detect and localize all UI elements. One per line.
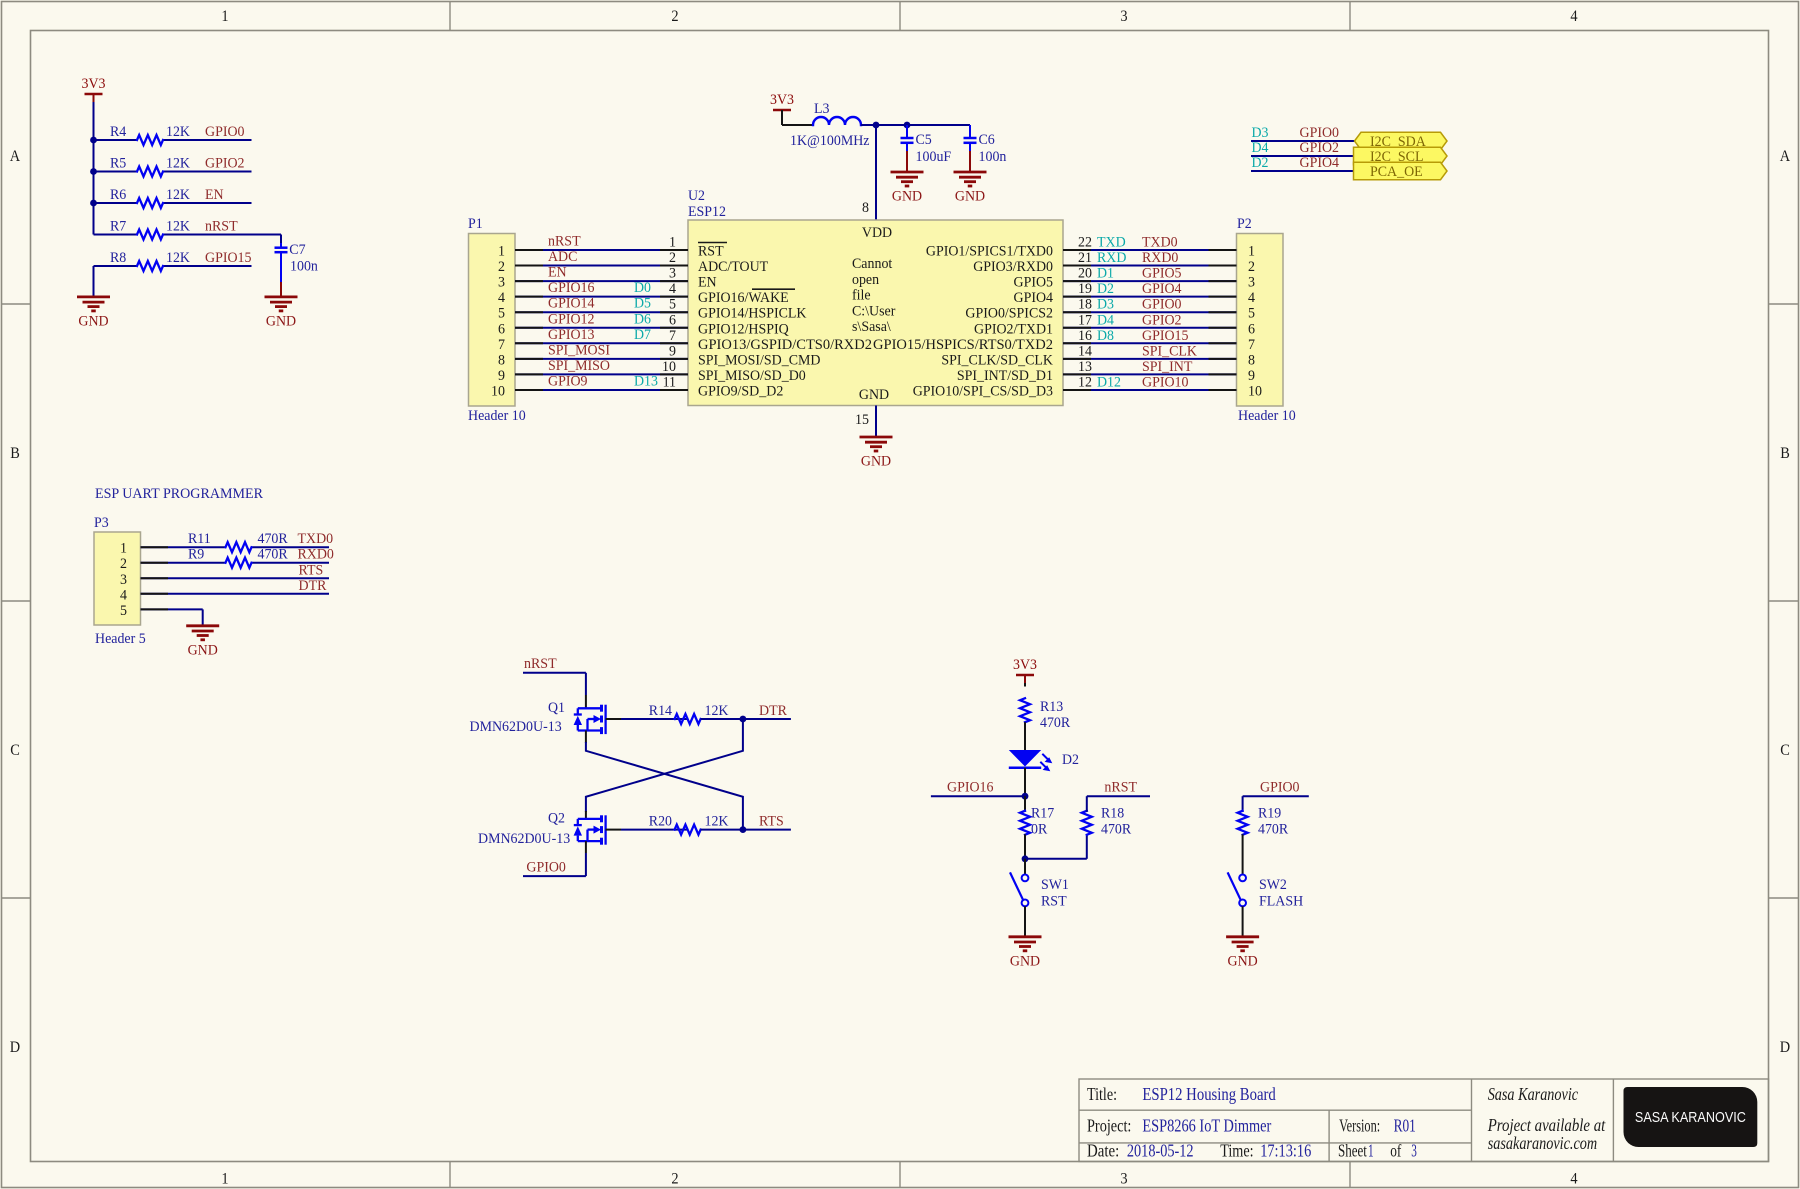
svg-text:nRST: nRST [548,234,581,250]
resistor R8 [110,250,190,271]
svg-text:SPI_INT: SPI_INT [1142,359,1192,375]
wire R14 to DTR [701,718,791,720]
svg-text:GPIO12/HSPIQ: GPIO12/HSPIQ [698,321,789,337]
svg-text:5: 5 [1248,306,1255,322]
svg-text:470R: 470R [258,531,288,547]
svg-text:GPIO5: GPIO5 [1014,275,1054,291]
svg-text:D13: D13 [634,373,658,389]
capacitor C5 [901,125,952,165]
svg-text:2: 2 [498,259,505,275]
svg-text:nRST: nRST [205,219,238,235]
wire P1 pin 2 to U2 [515,265,688,267]
svg-text:5: 5 [498,306,505,322]
svg-text:4: 4 [669,281,676,297]
svg-text:5: 5 [120,603,127,619]
ground (C5) [891,172,924,205]
wire Q2 source to GPIO0 [585,841,587,853]
svg-text:13: 13 [1078,359,1092,375]
svg-text:12K: 12K [166,187,190,203]
wire GPIO0 row [94,139,138,141]
svg-text:SPI_MOSI: SPI_MOSI [548,342,610,358]
svg-text:1: 1 [498,244,505,260]
wire GPIO2 to port I2C_SCL [1251,155,1355,157]
svg-text:16: 16 [1078,328,1092,344]
resistor R4 [110,124,190,145]
wire nRST to Q1 drain [523,672,586,674]
svg-text:3: 3 [1120,1171,1127,1188]
wire C5 to ground [906,151,908,172]
svg-text:R9: R9 [188,547,204,563]
svg-text:2: 2 [669,250,676,266]
ground (C6) [954,172,987,205]
svg-text:470R: 470R [1040,715,1070,731]
svg-text:R19: R19 [1258,806,1281,822]
svg-text:ESP UART PROGRAMMER: ESP UART PROGRAMMER [95,486,263,502]
wire R20 to RTS [701,829,791,831]
wire U2 GND pin 15 [875,406,877,438]
wire U2 to P2 pin 4 [1063,296,1237,298]
svg-text:VDD: VDD [862,225,892,241]
svg-text:GPIO0: GPIO0 [1142,297,1182,313]
title block Project row [1087,1116,1416,1136]
op-amp U2 ESP12 body [688,188,1063,406]
resistor R11 [188,531,288,552]
svg-text:SW1: SW1 [1041,877,1069,893]
wire Q2 gate to R20 [606,829,621,831]
svg-text:D6: D6 [634,311,651,327]
svg-text:GPIO4: GPIO4 [1300,155,1340,171]
title block author cell [1487,1084,1606,1153]
svg-text:Sheet: Sheet [1338,1141,1367,1161]
svg-text:D1: D1 [1097,266,1114,282]
svg-text:12K: 12K [705,814,729,830]
svg-text:GPIO1/SPICS1/TXD0: GPIO1/SPICS1/TXD0 [926,244,1053,260]
svg-text:GND: GND [188,642,218,658]
svg-text:C6: C6 [979,132,996,148]
svg-text:SPI_MISO: SPI_MISO [548,358,610,374]
wire R8 to ground [93,266,95,297]
svg-text:R13: R13 [1040,699,1063,715]
svg-text:B: B [10,445,20,462]
svg-text:SASA KARANOVIC: SASA KARANOVIC [1635,1110,1746,1126]
wire P3 pin 1 row TXD0 [141,546,226,548]
svg-text:C: C [1780,742,1790,759]
svg-text:D8: D8 [1097,328,1114,344]
svg-text:470R: 470R [258,547,288,563]
svg-text:PCA_OE: PCA_OE [1370,164,1423,180]
switch SW1 [1010,872,1069,909]
junction SW1 node [1022,855,1029,862]
svg-text:2: 2 [671,1171,678,1188]
resistor R7 [110,219,190,240]
svg-text:D4: D4 [1252,140,1269,156]
logo SASA KARANOVIC badge [1624,1087,1758,1147]
svg-text:4: 4 [1570,1171,1577,1188]
svg-text:12K: 12K [705,703,729,719]
svg-text:U2: U2 [688,188,705,204]
svg-text:GPIO4: GPIO4 [1142,281,1182,297]
wire GPIO0 to R19 [1243,795,1309,797]
junction VDD node [873,122,880,129]
junction [90,200,97,207]
svg-text:D5: D5 [634,296,651,312]
inductor L3 [790,101,870,149]
svg-text:EN: EN [548,265,567,281]
svg-text:nRST: nRST [1104,780,1137,796]
svg-text:GPIO0/SPICS2: GPIO0/SPICS2 [965,306,1053,322]
ground (SW1) [1009,937,1042,970]
broken image text inside U2 [852,256,895,335]
svg-text:R6: R6 [110,187,127,203]
svg-text:ESP12 Housing Board: ESP12 Housing Board [1142,1084,1275,1104]
svg-text:1: 1 [221,8,228,25]
wire U2 to P2 pin 2 [1063,265,1237,267]
svg-text:0R: 0R [1031,822,1047,838]
wire U2 to P2 pin 10 [1063,389,1237,391]
svg-text:GPIO0: GPIO0 [526,860,566,876]
wire P1 pin 3 to U2 [515,280,688,282]
svg-text:GPIO0: GPIO0 [1300,125,1340,141]
wire 3V3 to L3 [781,110,783,125]
svg-text:9: 9 [498,368,505,384]
svg-text:D0: D0 [634,280,651,296]
svg-text:3: 3 [1120,8,1127,25]
ground (SW2) [1226,937,1259,970]
ground (P3) [186,626,219,659]
svg-text:2018-05-12: 2018-05-12 [1127,1141,1194,1161]
resistor R9 [188,547,288,568]
wire P3 pin 2 row RXD0 [141,562,226,564]
ground (U2) [860,437,893,470]
wire P3 pin 5 to ground [141,608,203,610]
wire SW1 top [1024,859,1026,875]
wire VDD down to pin 8 [875,125,877,220]
svg-text:GPIO4: GPIO4 [1014,290,1054,306]
svg-text:10: 10 [1248,383,1262,399]
svg-text:DTR: DTR [759,703,787,719]
junction RTS [740,826,747,833]
svg-text:EN: EN [205,187,224,203]
svg-text:15: 15 [855,412,869,428]
svg-text:2: 2 [1248,259,1255,275]
wire nRST to C7 [252,234,282,236]
wire U2 to P2 pin 9 [1063,373,1237,375]
svg-text:5: 5 [669,297,676,313]
svg-text:GND: GND [78,313,108,329]
svg-text:GPIO9: GPIO9 [548,373,588,389]
junction [90,137,97,144]
svg-text:GND: GND [892,189,922,205]
svg-text:GPIO2: GPIO2 [1300,140,1340,156]
svg-text:21: 21 [1078,250,1092,266]
wire P1 pin 8 to U2 [515,358,688,360]
svg-text:s\Sasa\: s\Sasa\ [852,319,892,335]
header P1 body [468,216,526,424]
svg-text:GPIO14/HSPICLK: GPIO14/HSPICLK [698,306,807,322]
svg-text:GPIO12: GPIO12 [548,311,595,327]
svg-text:6: 6 [498,321,505,337]
power port 3V3 (VDD filter) [770,92,794,118]
resistor R20 [649,814,729,835]
svg-text:TXD0: TXD0 [298,531,334,547]
svg-text:6: 6 [669,312,676,328]
power port 3V3 (LED) [1013,657,1037,683]
svg-text:GPIO15: GPIO15 [205,250,252,266]
header P2 body [1237,216,1296,424]
svg-text:D3: D3 [1097,297,1114,313]
svg-text:open: open [852,272,880,288]
port I2C_SCL [1354,147,1448,165]
wire nRST to R18 [1086,796,1088,812]
resistor R13 [1020,698,1070,731]
svg-text:R7: R7 [110,219,127,235]
svg-text:3: 3 [498,275,505,291]
svg-text:Sasa Karanovic: Sasa Karanovic [1488,1084,1578,1104]
svg-text:C:\User: C:\User [852,303,895,319]
wire L3 to VDD node [861,124,970,126]
svg-text:7: 7 [1248,337,1255,353]
wire U2 to P2 pin 7 [1063,342,1237,344]
svg-text:100n: 100n [290,259,318,275]
wire C7 to ground [280,282,282,297]
wire P1 pin 7 to U2 [515,342,688,344]
svg-text:DTR: DTR [299,578,327,594]
svg-text:GPIO15/HSPICS/RTS0/TXD2: GPIO15/HSPICS/RTS0/TXD2 [873,337,1053,353]
svg-text:3V3: 3V3 [82,76,106,92]
svg-text:Version:: Version: [1339,1116,1380,1136]
svg-text:10: 10 [662,359,676,375]
wire U2 to P2 pin 8 [1063,358,1237,360]
resistor R14 [649,703,729,724]
svg-text:18: 18 [1078,297,1092,313]
svg-text:Q1: Q1 [548,700,565,716]
svg-text:EN: EN [698,275,717,291]
wire P1 pin 10 to U2 [515,389,688,391]
svg-text:100n: 100n [979,149,1007,165]
svg-text:3: 3 [1248,275,1255,291]
svg-text:RST: RST [1041,893,1067,909]
svg-text:4: 4 [1570,8,1577,25]
svg-text:GPIO15: GPIO15 [1142,328,1189,344]
capacitor C7 [275,242,319,282]
svg-text:GPIO9/SD_D2: GPIO9/SD_D2 [698,383,783,399]
wire P1 pin 5 to U2 [515,311,688,313]
svg-text:A: A [1780,148,1791,165]
svg-text:GND: GND [861,454,891,470]
svg-text:ESP12: ESP12 [688,204,726,220]
svg-text:GND: GND [859,387,889,403]
svg-text:10: 10 [491,383,505,399]
resistor R6 [110,187,190,208]
svg-text:2: 2 [671,8,678,25]
svg-text:TXD: TXD [1097,235,1126,251]
svg-text:P3: P3 [94,515,109,531]
wire SW2 to ground [1242,906,1244,937]
svg-text:12K: 12K [166,124,190,140]
wire Q1 gate to R14 [606,718,621,720]
svg-text:GPIO16: GPIO16 [548,280,595,296]
svg-text:1: 1 [1368,1141,1374,1161]
transistor Q1 [470,700,606,735]
svg-text:12K: 12K [166,250,190,266]
wire GPIO15 row [94,265,138,267]
wire C6 to ground [969,151,971,172]
svg-text:P2: P2 [1237,216,1252,232]
header P3 body [94,515,146,647]
wire P1 pin 9 to U2 [515,373,688,375]
wire P1 pin 4 to U2 [515,296,688,298]
svg-text:ESP8266 IoT Dimmer: ESP8266 IoT Dimmer [1142,1116,1271,1136]
svg-text:GPIO16: GPIO16 [947,780,994,796]
wire DTR cross-couple to Q2 drain [586,719,743,811]
svg-text:D2: D2 [1097,281,1114,297]
svg-text:20: 20 [1078,266,1092,282]
svg-text:1K@100MHz: 1K@100MHz [790,133,870,149]
svg-text:C5: C5 [916,132,932,148]
port I2C_SDA [1355,132,1448,150]
svg-text:GND: GND [1228,953,1258,969]
wire 3V3 to R13 [1024,683,1026,687]
svg-text:14: 14 [1078,343,1092,359]
title block frame [1079,1079,1769,1162]
svg-text:GPIO5: GPIO5 [1142,266,1182,282]
wire P3 pin 4 row DTR [141,593,330,595]
svg-text:R14: R14 [649,703,673,719]
wire GPIO0 to port I2C_SDA [1251,140,1355,142]
resistor R5 [110,156,190,177]
resistor R19 [1238,806,1289,838]
wire R19 to SW2 [1242,834,1244,874]
svg-text:GPIO2: GPIO2 [205,156,245,172]
svg-text:1: 1 [1248,244,1255,260]
svg-text:Cannot: Cannot [852,256,893,272]
svg-text:D: D [10,1039,20,1056]
svg-text:R18: R18 [1101,806,1124,822]
power port 3V3 (resistor bank) [82,76,106,102]
svg-text:19: 19 [1078,281,1092,297]
svg-text:3V3: 3V3 [1013,657,1037,673]
LED D2 [1009,750,1079,771]
svg-text:1: 1 [669,235,676,251]
svg-text:D7: D7 [634,327,651,343]
svg-text:TXD0: TXD0 [1142,235,1178,251]
svg-text:6: 6 [1248,321,1255,337]
svg-text:R17: R17 [1031,806,1055,822]
svg-text:D2: D2 [1252,155,1269,171]
port PCA_OE [1354,162,1448,180]
wire U2 to P2 pin 5 [1063,311,1237,313]
svg-text:RXD0: RXD0 [1142,250,1178,266]
resistor R18 [1082,806,1131,838]
svg-text:sasakaranovic.com: sasakaranovic.com [1488,1133,1598,1153]
svg-text:RTS: RTS [299,562,324,578]
svg-text:9: 9 [669,343,676,359]
svg-text:Project:: Project: [1087,1116,1131,1136]
svg-text:DMN62D0U-13: DMN62D0U-13 [478,831,570,847]
wire EN row [94,202,138,204]
wire GPIO4 to port PCA_OE [1251,170,1355,172]
ground (resistor bank) [77,297,110,330]
wire P1 pin 6 to U2 [515,327,688,329]
switch SW2 [1228,872,1304,909]
svg-text:Header 10: Header 10 [1238,408,1296,424]
svg-text:R4: R4 [110,124,127,140]
svg-text:SPI_MOSI/SD_CMD: SPI_MOSI/SD_CMD [698,352,821,368]
svg-text:R11: R11 [188,531,211,547]
wire GPIO2 row [94,171,138,173]
svg-text:RST: RST [698,244,724,260]
svg-text:file: file [852,288,871,304]
transistor Q2 [478,811,606,848]
svg-text:Title:: Title: [1087,1084,1117,1104]
wire Q1 source cross-couple to RTS [585,731,587,744]
wire P1 pin 1 to U2 [515,249,688,251]
svg-text:FLASH: FLASH [1259,893,1303,909]
wire D2 to GPIO16 node [1024,768,1026,796]
svg-text:D4: D4 [1097,312,1114,328]
svg-text:GPIO13/GSPID/CTS0/RXD2: GPIO13/GSPID/CTS0/RXD2 [698,337,872,353]
svg-text:GND: GND [955,189,985,205]
svg-text:11: 11 [663,374,676,390]
svg-text:3: 3 [120,572,127,588]
svg-text:SPI_CLK/SD_CLK: SPI_CLK/SD_CLK [941,352,1053,368]
svg-text:L3: L3 [814,101,830,117]
svg-text:22: 22 [1078,235,1092,251]
svg-text:R01: R01 [1394,1116,1416,1136]
svg-text:GPIO13: GPIO13 [548,327,595,343]
svg-text:C: C [10,742,20,759]
svg-text:9: 9 [1248,368,1255,384]
svg-text:R5: R5 [110,156,126,172]
svg-text:12K: 12K [166,156,190,172]
svg-text:D: D [1780,1039,1790,1056]
svg-text:SPI_MISO/SD_D0: SPI_MISO/SD_D0 [698,368,806,384]
svg-text:GPIO16/WAKE: GPIO16/WAKE [698,290,789,306]
svg-text:Project available at: Project available at [1487,1115,1606,1135]
svg-text:ADC: ADC [548,249,577,265]
svg-text:RTS: RTS [759,814,784,830]
svg-text:GPIO0: GPIO0 [1260,780,1300,796]
svg-text:Header 5: Header 5 [95,631,146,647]
svg-text:C7: C7 [289,242,306,258]
wire nRST row [94,234,138,236]
svg-text:Q2: Q2 [548,811,565,827]
title block Date row [1087,1141,1417,1161]
svg-text:470R: 470R [1101,822,1131,838]
junction GPIO16 [1022,793,1029,800]
svg-text:8: 8 [1248,352,1255,368]
svg-text:GPIO3/RXD0: GPIO3/RXD0 [973,259,1053,275]
svg-text:Header 10: Header 10 [468,408,526,424]
wire P3 pin 3 row RTS [141,577,330,579]
svg-text:470R: 470R [1258,822,1288,838]
svg-text:12: 12 [1078,374,1092,390]
capacitor C6 [964,125,1007,165]
svg-text:17: 17 [1078,312,1092,328]
svg-text:GPIO2: GPIO2 [1142,312,1182,328]
svg-text:D12: D12 [1097,374,1121,390]
svg-text:GND: GND [266,313,296,329]
svg-text:SPI_INT/SD_D1: SPI_INT/SD_D1 [957,368,1053,384]
svg-text:3: 3 [1411,1141,1417,1161]
svg-text:17:13:16: 17:13:16 [1260,1141,1311,1161]
svg-text:100uF: 100uF [916,149,952,165]
svg-text:7: 7 [669,328,676,344]
svg-text:4: 4 [120,587,127,603]
svg-text:P1: P1 [468,216,483,232]
svg-text:D2: D2 [1062,752,1079,768]
svg-text:1: 1 [221,1171,228,1188]
